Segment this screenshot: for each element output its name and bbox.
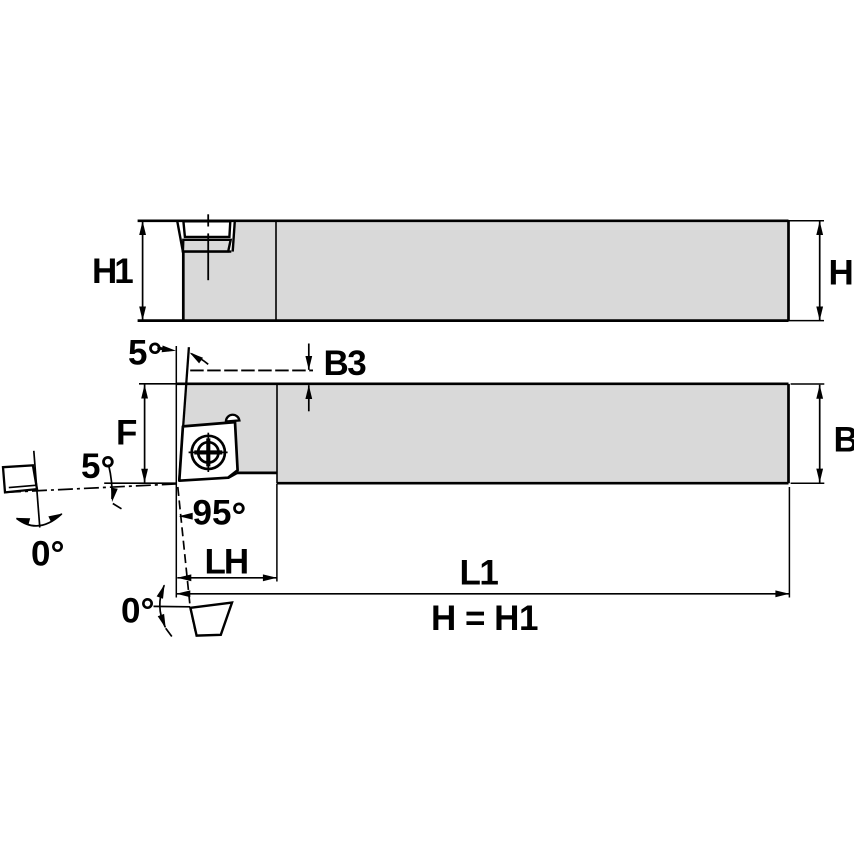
top view body (shank + head) — [179, 384, 788, 483]
screw centerline — [207, 214, 209, 226]
dimension H — [789, 220, 825, 222]
side view head end line — [275, 222, 277, 321]
head bottom edge — [237, 472, 277, 475]
center dash-dot line — [6, 484, 177, 492]
svg-text:B3: B3 — [324, 344, 367, 383]
svg-text:H = H1: H = H1 — [431, 599, 538, 638]
bottom reference line — [154, 605, 191, 607]
svg-text:LH: LH — [205, 543, 248, 582]
insert side view — [183, 221, 230, 237]
dimension H1 — [142, 221, 144, 321]
svg-text:F: F — [116, 414, 137, 453]
side view left edge — [182, 251, 185, 321]
screw cross — [206, 438, 210, 466]
svg-text:B: B — [834, 421, 854, 460]
svg-text:0°: 0° — [121, 591, 154, 630]
vertical reference line through tip — [175, 346, 177, 598]
pocket relief notch — [226, 415, 240, 422]
pocket right wall — [233, 221, 235, 252]
screw outer circle — [192, 436, 225, 469]
front slant edge 5 degrees — [179, 347, 189, 481]
side view bottom edge line — [138, 319, 789, 322]
dimension LH — [276, 484, 278, 582]
side view body (shank with insert pocket) — [177, 221, 788, 321]
tip extension line — [104, 482, 177, 484]
screw inner circle — [198, 442, 218, 462]
insert top view — [179, 422, 237, 481]
pocket bottom line — [182, 250, 231, 252]
pocket left wall — [177, 221, 183, 252]
screw crosshair — [207, 433, 209, 472]
left rotation arc 0 degrees — [17, 514, 62, 526]
top view bottom edge — [277, 482, 789, 485]
left projection line — [34, 451, 40, 528]
dimension B — [791, 383, 825, 385]
dimension B3 — [308, 344, 310, 370]
dimension L1 — [788, 487, 790, 598]
svg-text:95°: 95° — [193, 494, 247, 537]
svg-text:0°: 0° — [31, 535, 64, 574]
side view top edge line — [138, 219, 789, 222]
svg-text:H: H — [829, 254, 854, 293]
dashed mirror slant line — [178, 487, 190, 608]
insert end profile bottom — [190, 603, 232, 636]
top view right edge — [787, 384, 790, 483]
side view right edge — [787, 221, 790, 321]
svg-text:L1: L1 — [460, 554, 499, 593]
B3 dashed level line — [190, 369, 313, 371]
svg-text:5°: 5° — [128, 334, 162, 377]
dimension F — [144, 385, 146, 483]
svg-text:H1: H1 — [92, 252, 133, 291]
head end line top view — [276, 385, 278, 484]
insert side profile left — [3, 465, 37, 492]
head bottom step — [228, 473, 237, 478]
top view top edge line with F extension — [139, 383, 177, 385]
label 95 degrees — [181, 515, 192, 517]
shim side view — [183, 240, 231, 252]
bottom rotation arc 0 degrees — [160, 585, 166, 627]
